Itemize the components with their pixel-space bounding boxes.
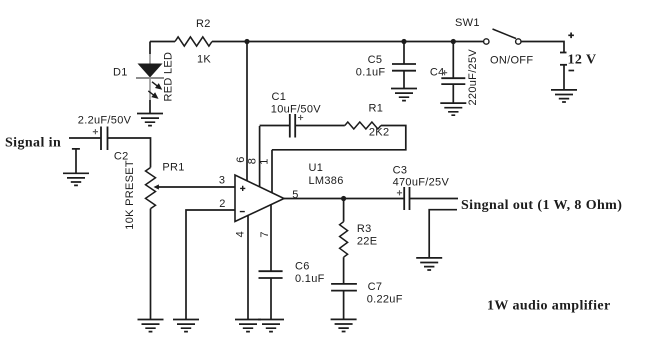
wire input return stub (72, 149, 80, 173)
svg-text:1: 1 (259, 158, 271, 164)
wire R3 to C7 (343, 257, 345, 284)
svg-text:3: 3 (219, 175, 225, 187)
ground C6 (258, 320, 284, 332)
wire C2 to PR1 top corner (108, 138, 151, 168)
node junction at pin6 branch (244, 39, 249, 44)
wire pin5 output (284, 198, 404, 200)
capacitor C6 (259, 261, 325, 286)
node junction R3 (341, 196, 346, 201)
ground output return (416, 258, 442, 270)
wire pin3 from wiper (157, 186, 235, 188)
svg-text:1K: 1K (197, 53, 211, 65)
wire C1 to R1 (295, 125, 345, 127)
svg-text:0.22uF: 0.22uF (367, 294, 403, 306)
svg-text:470uF/25V: 470uF/25V (393, 176, 450, 188)
svg-text:5: 5 (292, 189, 298, 201)
capacitor C7 (331, 281, 403, 306)
capacitor C2 (78, 115, 132, 163)
wire pin7 to C6 (270, 204, 272, 271)
wire pin8 to C1 (259, 126, 261, 187)
wire C5 branch (403, 42, 405, 65)
wire C4 branch (452, 42, 454, 79)
svg-text:10uF/50V: 10uF/50V (271, 104, 321, 116)
ground C7 (331, 319, 357, 331)
svg-text:7: 7 (259, 231, 271, 237)
svg-text:22E: 22E (357, 235, 377, 247)
wire output return (429, 210, 457, 258)
ground PR1 (138, 320, 164, 332)
wire LED branch from rail (149, 42, 151, 55)
svg-text:C3: C3 (393, 165, 408, 177)
svg-text:C5: C5 (368, 54, 383, 66)
wire pin1 to feedback (271, 150, 273, 193)
svg-text:C1: C1 (272, 91, 287, 103)
node junction at C5 branch (401, 39, 406, 44)
node junction at C4 branch (451, 39, 456, 44)
resistor R1 (345, 103, 390, 139)
potentiometer PR1 (124, 160, 185, 230)
resistor R2 (175, 37, 212, 46)
ground pin4 (235, 320, 261, 332)
wire pin6 from rail junction (246, 42, 248, 182)
wire C4 to ground (452, 84, 454, 103)
capacitor C3 (393, 165, 450, 211)
svg-text:D1: D1 (113, 66, 128, 78)
svg-text:220uF/25V: 220uF/25V (467, 49, 479, 106)
wire pin2 (186, 210, 235, 320)
svg-text:2K2: 2K2 (369, 127, 389, 139)
svg-text:R3: R3 (357, 223, 372, 235)
svg-text:1W audio amplifier: 1W audio amplifier (487, 299, 611, 314)
capacitor C4 (430, 49, 479, 106)
svg-text:PR1: PR1 (162, 161, 184, 173)
svg-text:8: 8 (247, 158, 259, 164)
capacitor C1 (260, 91, 322, 138)
resistor R3 (340, 222, 378, 258)
svg-text:ON/OFF: ON/OFF (490, 55, 533, 67)
wire pin4 to ground (247, 215, 249, 320)
svg-text:RED LED: RED LED (163, 52, 175, 102)
svg-text:2: 2 (219, 198, 225, 210)
svg-text:LM386: LM386 (309, 175, 344, 187)
svg-text:12 V: 12 V (568, 52, 597, 67)
svg-text:10K PRESET: 10K PRESET (124, 160, 136, 230)
op-amp U1 LM386 (235, 162, 344, 222)
diode D1 RED LED (113, 52, 175, 102)
svg-text:0.1uF: 0.1uF (356, 67, 386, 79)
wire R1 to pin1 feedback loop (272, 126, 406, 150)
wire signal in to C2 (69, 137, 101, 139)
svg-text:4: 4 (234, 231, 246, 237)
wire PR1 bottom to ground (150, 209, 152, 320)
svg-text:0.1uF: 0.1uF (295, 273, 325, 285)
battery 12V (560, 33, 596, 71)
svg-text:6: 6 (235, 156, 247, 162)
svg-text:U1: U1 (309, 162, 324, 174)
wire junction to R3 (343, 199, 345, 222)
svg-text:C6: C6 (295, 261, 310, 273)
svg-text:Signal in: Signal in (5, 136, 61, 151)
ground battery (551, 90, 577, 102)
svg-text:2.2uF/50V: 2.2uF/50V (78, 115, 132, 127)
ground input return (63, 173, 89, 185)
ground D1 (137, 114, 163, 126)
wire C7 to ground (343, 291, 345, 320)
capacitor C5 (356, 54, 416, 79)
wire LED to ground (149, 100, 151, 114)
wire top rail left of R2 (150, 41, 175, 43)
svg-text:C7: C7 (368, 281, 383, 293)
wire C6 to ground (270, 278, 272, 320)
svg-text:R2: R2 (196, 18, 211, 30)
wire switch to battery (521, 42, 564, 53)
wire C5 to ground (403, 71, 405, 89)
svg-text:R1: R1 (369, 103, 384, 115)
switch SW1 (455, 17, 533, 67)
wire battery to ground (563, 65, 565, 90)
ground pin2 (173, 320, 199, 332)
wire C3 to output (410, 198, 459, 200)
ground C4 (440, 103, 466, 115)
ground C5 (391, 89, 417, 101)
svg-text:SW1: SW1 (455, 17, 480, 29)
wire top rail R2 to switch (212, 41, 484, 43)
svg-text:Singnal out (1 W, 8 Ohm): Singnal out (1 W, 8 Ohm) (461, 198, 622, 213)
